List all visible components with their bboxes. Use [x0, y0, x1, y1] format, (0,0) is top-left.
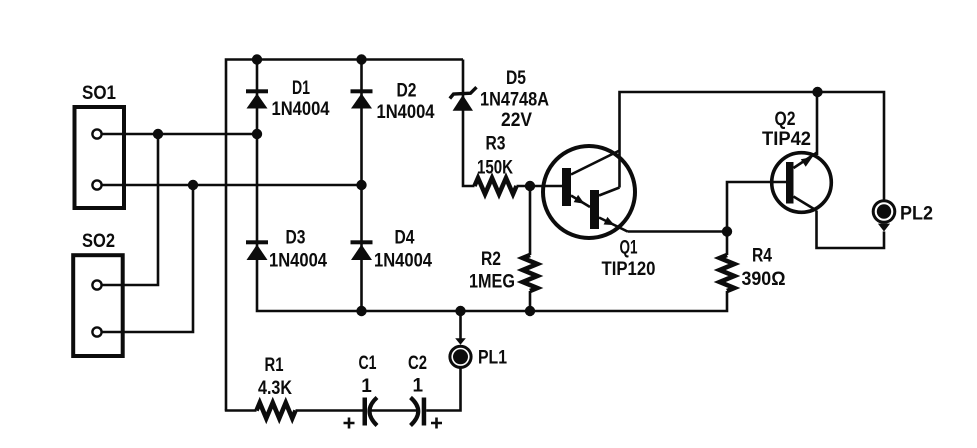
transistor Q2 circle [772, 153, 832, 213]
zener D5 [453, 95, 473, 111]
wire bottom return (y=410.5) left segment [225, 409, 257, 412]
svg-text:R4: R4 [752, 246, 772, 267]
wire R1 to C1 [296, 409, 363, 412]
svg-text:1N4004: 1N4004 [377, 102, 435, 123]
label C1 polarity [344, 418, 355, 429]
svg-text:R2: R2 [481, 249, 501, 270]
wire R2 bottom lead [529, 291, 532, 311]
terminal SO1 pin2 [92, 180, 101, 189]
wire R3 to Q1 base [517, 185, 563, 188]
svg-text:C1: C1 [359, 353, 377, 374]
svg-text:PL2: PL2 [900, 204, 933, 225]
transistor Q2 base bar [786, 162, 794, 204]
wire Q1 collector vertical [620, 92, 885, 200]
junction PL1 at bottom rail [455, 306, 465, 316]
resistor R2 [523, 255, 538, 291]
wire SO2 pin1 to node A [102, 134, 158, 285]
diode D3 cathode bar [246, 240, 268, 244]
svg-text:D3: D3 [286, 228, 306, 249]
svg-text:D2: D2 [397, 81, 417, 102]
wire SO1 pin2 to node B (y=185) [102, 184, 362, 187]
svg-text:1N4004: 1N4004 [374, 251, 432, 272]
svg-text:D4: D4 [395, 228, 415, 249]
diode D3 [247, 245, 268, 261]
plug PL1 outer ring [450, 346, 471, 367]
wire Q1 T2 emitter [599, 218, 628, 232]
terminal SO1 pin1 [92, 129, 101, 138]
capacitor C1 plate [363, 398, 368, 426]
resistor R4 [720, 255, 735, 291]
svg-text:SO2: SO2 [82, 231, 115, 252]
svg-text:1N4004: 1N4004 [269, 251, 327, 272]
wire R4 top lead [726, 232, 729, 256]
capacitor C2 plate [422, 398, 427, 426]
transistor Q1 base bar 1 [562, 168, 571, 206]
diode D1 [247, 94, 268, 109]
junction D1 cathode at top rail [252, 54, 262, 64]
svg-text:R1: R1 [265, 355, 284, 376]
resistor R1 [257, 403, 296, 419]
plug PL1 tip [453, 349, 468, 364]
label C2 polarity [431, 418, 442, 429]
junction D1 anode / node A wire [252, 129, 262, 139]
svg-text:390Ω: 390Ω [742, 269, 786, 290]
svg-text:TIP120: TIP120 [602, 259, 656, 280]
junction base node [525, 181, 535, 191]
transistor Q1 base bar 2 [590, 190, 599, 229]
capacitor C1 curved plate [370, 398, 378, 426]
wire D1/D3 column and bottom rail [257, 60, 727, 312]
svg-text:Q1: Q1 [620, 238, 638, 259]
svg-text:D5: D5 [506, 68, 526, 89]
wire D2/D4 column [360, 60, 363, 312]
terminal SO2 pin2 [92, 327, 101, 336]
transistor Q1 circle [543, 146, 635, 238]
svg-text:R3: R3 [486, 134, 506, 155]
junction D4 anode at bottom rail [356, 306, 366, 316]
connector SO1 box [75, 107, 125, 208]
junction D2 cathode at top rail [356, 54, 366, 64]
wire Q2 emitter diagonal [794, 153, 818, 169]
svg-text:1MEG: 1MEG [469, 272, 515, 293]
svg-text:4.3K: 4.3K [258, 378, 292, 399]
wire Q1 T1 collector [571, 151, 620, 175]
junction Q2 emitter at top rail [812, 87, 822, 97]
diode D2 [351, 94, 372, 109]
wire Q2 collector diagonal [794, 197, 817, 211]
junction D2 anode / node B wire [356, 180, 366, 190]
connector SO2 box [73, 255, 123, 356]
wire Q1 T1 emitter [571, 196, 590, 208]
plug PL2 outer ring [873, 201, 895, 223]
junction node B (SO2 pin2 tap) [188, 180, 198, 190]
svg-text:1N4004: 1N4004 [272, 99, 330, 120]
svg-text:Q2: Q2 [775, 109, 796, 130]
wire PL1 top lead [459, 311, 462, 339]
junction R4 / Q2 base node [722, 226, 732, 236]
arrow PL2 [878, 224, 890, 232]
wire C1 to C2 [371, 409, 417, 412]
svg-text:D1: D1 [292, 78, 310, 99]
zener D5 cathode bar [450, 87, 477, 98]
terminal SO2 pin1 [92, 280, 101, 289]
wire Q2 emitter vertical [816, 92, 819, 155]
wire SO1 pin1 to node A (y=134) [102, 133, 257, 136]
arrow Q2 emitter [801, 157, 813, 167]
wire PL1 bottom lead [426, 367, 460, 410]
wire Q1 emitter to R4 node [628, 230, 728, 233]
junction node A (SO2 pin1 tap) [153, 129, 163, 139]
diode D4 [351, 245, 372, 261]
wire positive top rail (y=59.5) [226, 60, 463, 411]
svg-text:PL1: PL1 [478, 348, 507, 369]
svg-text:SO1: SO1 [82, 83, 116, 104]
svg-text:22V: 22V [501, 110, 532, 131]
wire R2 top lead [529, 186, 532, 255]
svg-text:TIP42: TIP42 [762, 129, 811, 150]
wire node up to Q2 base [727, 182, 786, 232]
arrow Q1 T1 emitter [574, 195, 585, 204]
svg-text:1: 1 [361, 376, 372, 397]
arrow Q1 T2 emitter [604, 217, 615, 225]
arrow PL1 [455, 338, 466, 345]
wire Q2 collector down and right to PL2 [817, 211, 885, 249]
wire SO2 pin2 to node B [102, 185, 193, 332]
diode D4 cathode bar [351, 240, 373, 244]
svg-text:150K: 150K [477, 158, 513, 179]
capacitor C2 curved plate [411, 398, 419, 426]
plug PL2 tip [877, 204, 891, 218]
junction R2 at bottom rail [525, 306, 535, 316]
svg-text:1N4748A: 1N4748A [480, 90, 549, 111]
wire Q1 T2 collector [599, 188, 620, 196]
diode D1 cathode bar [246, 89, 268, 93]
wire D5 branch from top rail down to R3 [463, 60, 475, 187]
svg-text:C2: C2 [408, 353, 427, 374]
svg-text:1: 1 [413, 376, 424, 397]
resistor R3 [475, 178, 517, 194]
diode D2 cathode bar [351, 89, 373, 93]
